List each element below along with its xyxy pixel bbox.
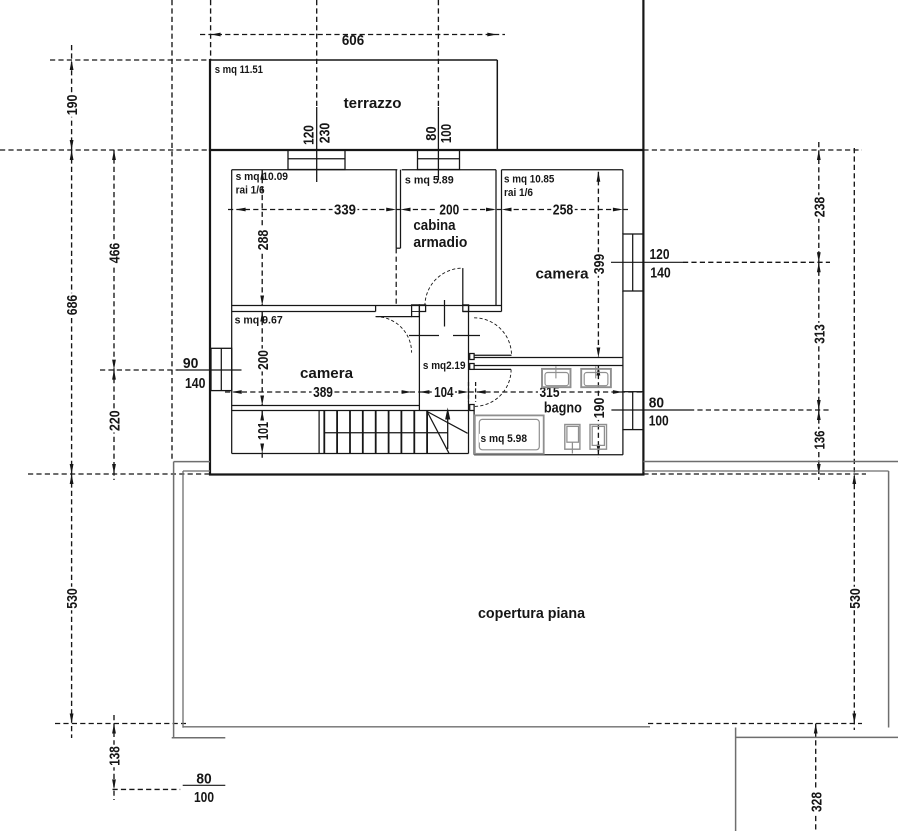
window 90/140 labels [183,355,206,392]
dimension 399 camera2 [591,172,608,358]
stairs winder diagonal 2 [427,412,468,434]
svg-text:530: 530 [64,588,81,609]
window 90/140 dim line [100,369,242,371]
svg-text:100: 100 [438,124,455,143]
dimension 466 left [107,150,124,370]
copertura right parapet top [643,462,898,472]
svg-text:104: 104 [434,384,454,401]
jamb bagno upper [470,354,474,360]
svg-text:s mq 10.09: s mq 10.09 [236,171,288,183]
east inner line camera2 [622,170,624,455]
jamb hallway top-left [412,305,420,317]
north outer wall [209,149,644,151]
camera1 right edge solid [396,170,400,249]
label 80/100 bottom-left window [183,770,226,806]
stairs up arrow [445,408,450,450]
window 80/100 bagno dim line [611,409,830,411]
east outer wall [642,0,644,475]
stairs winder diagonal 1 [427,412,449,454]
west outer wall [209,59,211,475]
window 120/140 labels [650,246,671,282]
terrazzo right edge [496,60,498,150]
svg-text:530: 530 [847,588,864,609]
copertura left parapet inner [182,471,184,728]
witness line horizontal y=474 left [28,473,210,475]
svg-text:101: 101 [255,422,272,440]
dimension 288 camera1 [255,170,272,306]
svg-text:313: 313 [811,324,828,344]
dimension 101 stair strip [255,411,272,461]
hallway right wall [468,306,470,454]
witness ticks at 104 dim [469,382,476,402]
dimension 190 bagno [591,366,608,459]
witness line window W2 center vertical [437,0,439,107]
svg-text:339: 339 [334,201,356,218]
svg-text:190: 190 [64,95,81,116]
dimension 136 right [811,410,828,480]
dimension 138 bottom-left [107,715,124,800]
dimension 606 terrazzo width [200,32,505,49]
camera1 right edge dashed [395,248,397,305]
dimension 530 left [64,474,81,738]
bagno left edge lower [473,411,475,455]
south inner line [232,454,623,455]
bathtub area label [479,433,529,445]
cabina label [413,217,467,251]
window 80/100 frame [418,150,460,170]
svg-text:s mq 5.89: s mq 5.89 [405,174,454,186]
window 80/100 labels [423,124,455,143]
svg-text:80: 80 [196,770,211,787]
svg-text:200: 200 [439,201,459,218]
hallway area label [423,360,466,372]
svg-text:copertura piana: copertura piana [478,605,586,622]
dimension 190 left [64,45,81,150]
svg-text:100: 100 [194,789,214,806]
terrazzo top edge [211,59,498,61]
bidet [590,425,607,450]
copertura left parapet top [174,462,210,471]
witness line horizontal y=474 right [643,473,866,475]
copertura bottom-right wall vertical [735,728,737,831]
svg-text:bagno: bagno [544,399,582,416]
svg-text:s mq 9.67: s mq 9.67 [235,315,283,327]
terrazzo area label [215,64,263,76]
copertura left parapet outer [173,462,175,738]
jamb bagno mid [470,364,474,370]
dimension 530 right [847,148,864,730]
witness line horizontal y=723.5 bottom [55,723,862,725]
window 120/140 dim line [611,261,830,263]
sink 1 [542,366,571,387]
rooms top inner line [232,169,623,171]
svg-text:rai 1/6: rai 1/6 [236,185,265,197]
svg-text:camera: camera [300,365,354,382]
svg-text:120: 120 [650,246,670,263]
svg-text:camera: camera [536,266,590,283]
svg-text:s mq 11.51: s mq 11.51 [215,64,263,76]
svg-text:190: 190 [591,398,608,419]
dimension 238 right [811,142,828,262]
svg-text:90: 90 [183,355,199,372]
camera2 area label [504,174,554,200]
copertura bottom inner line [183,726,650,728]
witness line top-left vertical x=210 [210,0,212,60]
wall camera1-camera3 upper line [232,305,502,307]
dimension 200 camera3 [255,312,272,406]
door center marks hallway [409,335,480,337]
hallway left wall [418,312,420,411]
camera3 door leaf [376,316,412,318]
south outer wall [209,473,645,475]
witness line horizontal y=789.4 bottom-left [113,788,181,790]
bagno top wall upper line [474,357,623,359]
terrazzo label [344,95,402,112]
svg-text:328: 328 [808,792,825,812]
svg-text:s mq 5.98: s mq 5.98 [481,433,528,445]
camera3 door jamb cap [375,306,377,312]
svg-text:cabina: cabina [413,217,456,234]
svg-text:686: 686 [64,295,81,316]
svg-text:200: 200 [255,350,272,370]
wc [565,425,580,454]
dimension row 389 104 315 [225,384,643,401]
stairs risers [324,411,427,454]
cabina right partition [496,170,502,312]
witness line window W1 center vertical [316,0,318,107]
stairs left wall [318,411,320,454]
svg-text:220: 220 [107,410,124,431]
svg-text:399: 399 [591,254,608,275]
window 120/230 center line [316,107,318,182]
cabina area label [405,174,454,186]
window 80/100 bagno labels [649,394,669,429]
bagno door swing [474,369,511,406]
camera1 area label [236,171,288,196]
cabina door leaf [462,268,464,306]
dimension 220 left [107,370,124,480]
window 90/140 frame [211,348,232,390]
svg-text:rai 1/6: rai 1/6 [504,187,533,199]
bagno top wall lower line [474,365,623,367]
svg-text:138: 138 [107,746,124,766]
jamb hallway top-right [463,305,469,312]
window 120/230 frame [288,150,345,170]
window 80/100 bagno frame [623,392,644,430]
west rooms inner line [231,170,233,454]
stairs top wall [232,406,469,411]
camera2 door leaf [474,354,511,356]
jamb bagno lower [470,405,474,411]
bathtub [475,415,544,453]
svg-text:120: 120 [300,125,317,145]
svg-text:389: 389 [313,384,333,401]
dimension 328 bottom-right [808,724,825,831]
bagno door leaf [474,368,511,370]
svg-text:terrazzo: terrazzo [344,95,402,112]
svg-text:s mq2.19: s mq2.19 [423,360,466,372]
svg-text:s mq 10.85: s mq 10.85 [504,174,554,186]
svg-text:140: 140 [185,375,206,392]
svg-text:288: 288 [255,230,272,251]
dimension 313 right [811,262,828,410]
copertura piana label [478,605,586,622]
sink 2 [581,366,611,387]
svg-text:136: 136 [811,431,828,450]
window 120/140 frame [623,234,644,291]
jamb hallway top-left2 [419,305,425,312]
camera2 label [536,266,590,283]
copertura right parapet [888,471,890,728]
camera3 area label [235,315,283,327]
svg-text:238: 238 [811,197,828,218]
dimension 686 left [64,150,81,480]
cabina door swing [425,268,463,306]
cabina door center mark [444,300,446,327]
window 80/100 center line [437,107,439,180]
copertura bottom-left stub [172,737,226,739]
witness line copertura left vertical x=172 [171,0,173,462]
svg-text:armadio: armadio [413,234,467,251]
svg-text:258: 258 [553,201,574,218]
svg-text:100: 100 [649,412,669,429]
camera2 door swing [474,318,511,355]
camera3 door swing [376,317,412,353]
svg-text:140: 140 [650,265,671,282]
svg-text:230: 230 [316,123,333,144]
wall camera1-camera3 lower line [232,311,502,313]
svg-text:606: 606 [342,32,364,49]
witness line horizontal y=60 left [50,59,211,61]
bagno label [544,399,582,416]
svg-text:80: 80 [649,394,664,411]
witness line horizontal y=150 right [643,149,862,151]
copertura bottom-right wall horizontal [736,736,898,738]
dimension row 339 200 258 [228,201,631,218]
witness line horizontal y=150 left [0,149,210,151]
camera3 label [300,365,354,382]
svg-text:466: 466 [107,243,124,264]
stairs midline [324,432,447,434]
window 120/230 labels [300,123,333,145]
